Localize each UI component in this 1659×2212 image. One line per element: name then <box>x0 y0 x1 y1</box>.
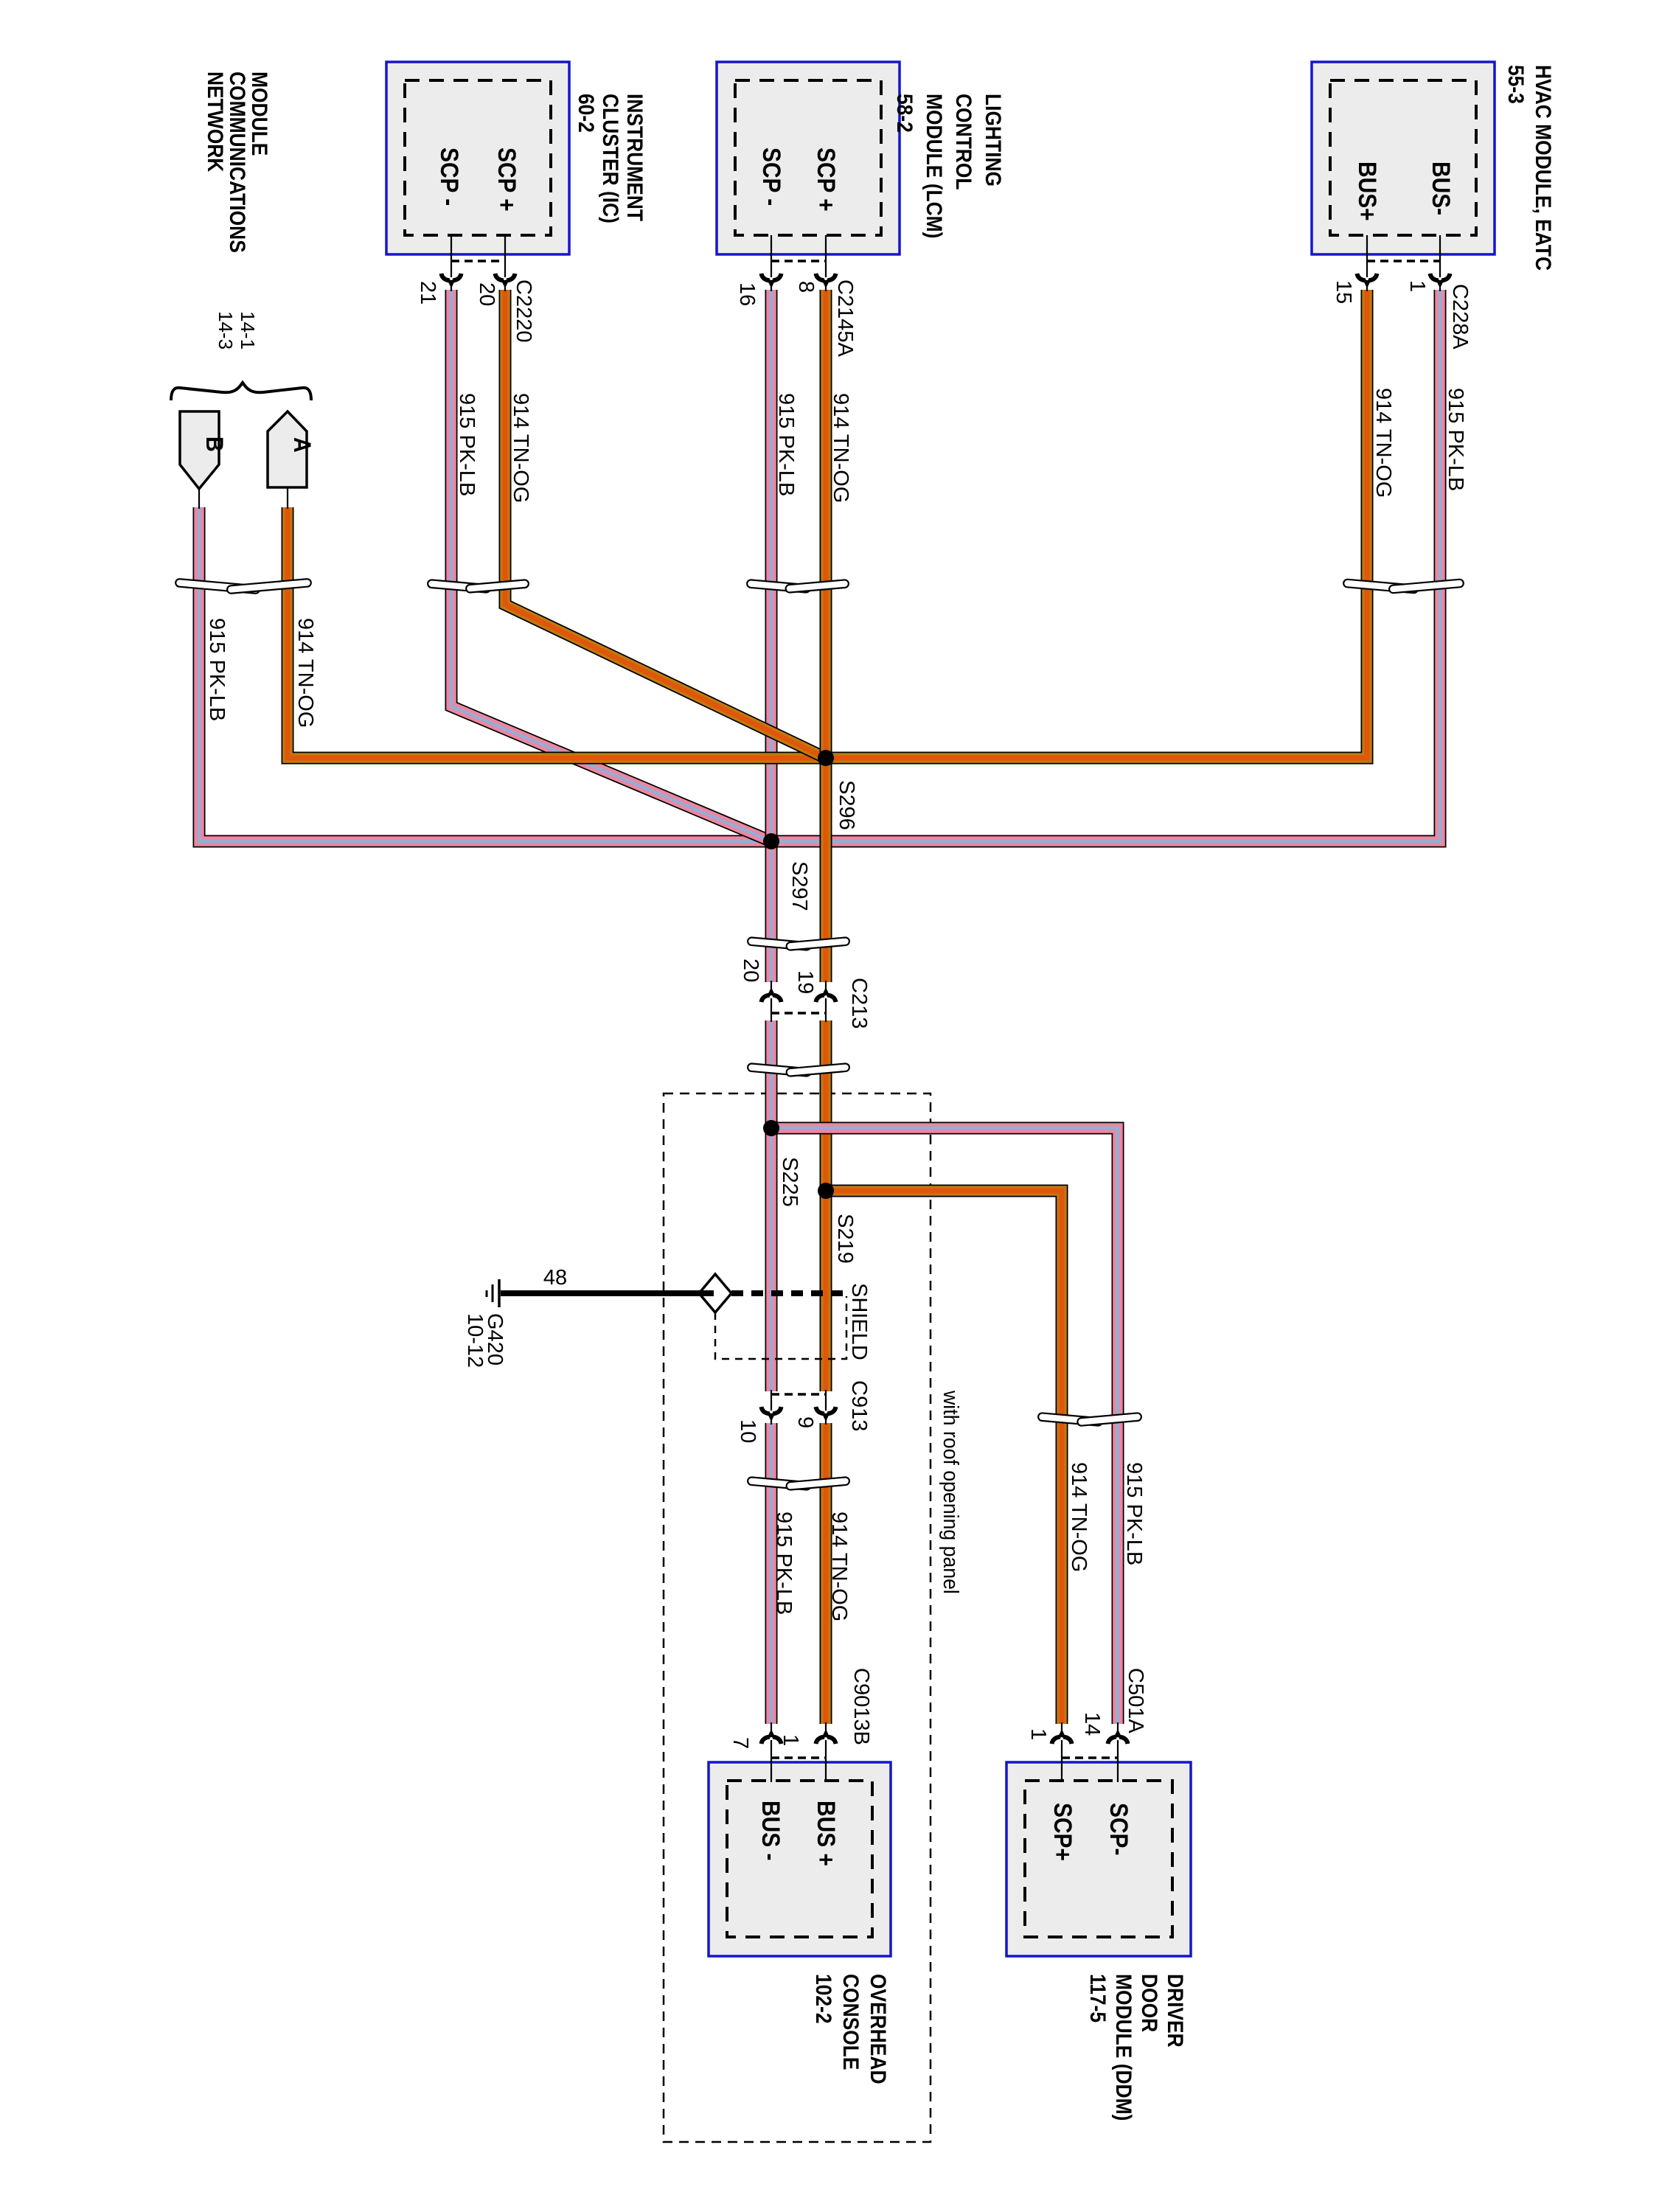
svg-text:BUS +: BUS + <box>813 1801 841 1866</box>
module box: DRIVER DOOR MODULE (DDM) <box>1006 1762 1191 1956</box>
wire 915 PK-LB: IC SCP- pin 21 diagonal to S297 <box>451 290 771 841</box>
wire 915 PK-LB: S225 branch to DDM SCP- <box>771 1128 1118 1724</box>
svg-text:G42010-12: G42010-12 <box>463 1313 507 1368</box>
wire 915 PK-LB: main bus C913 to overhead console <box>765 1423 778 1724</box>
twisted pair symbol HVAC wires <box>1343 579 1419 593</box>
svg-text:C228A: C228A <box>1448 284 1472 349</box>
shield dashed drain line <box>731 1290 846 1296</box>
wire 914 TN-OG: connector A to S296 to HVAC BUS+ <box>288 290 1367 758</box>
svg-text:15: 15 <box>1332 280 1355 304</box>
twisted pair symbol below C213 <box>748 1063 811 1077</box>
svg-text:9: 9 <box>793 1416 817 1428</box>
wire 914 TN-OG: IC SCP+ pin 20 diagonal to S296 <box>505 290 826 758</box>
svg-text:14-114-3: 14-114-3 <box>215 311 259 349</box>
svg-text:915 PK-LB: 915 PK-LB <box>774 393 798 496</box>
twisted pair symbol above C9013B <box>748 1477 811 1490</box>
twisted pair symbol above C213 <box>748 937 811 950</box>
svg-text:INSTRUMENTCLUSTER (IC)60-2: INSTRUMENTCLUSTER (IC)60-2 <box>574 94 648 223</box>
wire 914 TN-OG: S219 branch to DDM SCP+ <box>826 1191 1062 1724</box>
svg-text:A: A <box>289 437 316 453</box>
svg-text:20: 20 <box>475 282 498 306</box>
svg-text:48: 48 <box>543 1266 567 1290</box>
svg-text:C213: C213 <box>847 978 871 1029</box>
svg-text:HVAC MODULE, EATC55-3: HVAC MODULE, EATC55-3 <box>1504 65 1557 271</box>
svg-text:SCP+: SCP+ <box>1049 1803 1077 1861</box>
connector C501A pins 1,14 at DDM <box>1061 1722 1062 1782</box>
svg-text:BUS-: BUS- <box>1427 161 1455 215</box>
wire 915 PK-LB: main bus C213 to C913 <box>765 1020 778 1391</box>
splice S297 <box>763 833 779 849</box>
wire 915 PK-LB: connector B to S297 to HVAC BUS- <box>199 290 1440 841</box>
svg-text:915 PK-LB: 915 PK-LB <box>772 1512 796 1615</box>
connector A symbol <box>268 411 307 487</box>
twisted pair symbol DDM branch <box>1038 1413 1102 1426</box>
splice S219 <box>818 1183 834 1199</box>
inline connector C913 pins 10,9 <box>771 1390 772 1425</box>
svg-text:C2220: C2220 <box>512 279 535 342</box>
twisted pair symbol LCM wires <box>747 580 810 593</box>
svg-text:B: B <box>201 437 228 452</box>
module box: HVAC MODULE EATC <box>1312 62 1495 254</box>
svg-text:914 TN-OG: 914 TN-OG <box>509 393 532 503</box>
svg-text:914 TN-OG: 914 TN-OG <box>829 393 852 503</box>
svg-text:OVERHEADCONSOLE102-2: OVERHEADCONSOLE102-2 <box>812 1974 891 2084</box>
svg-text:915 PK-LB: 915 PK-LB <box>455 393 479 496</box>
connector C2220 pins 21,20 at IC <box>451 235 452 291</box>
svg-text:914 TN-OG: 914 TN-OG <box>1371 388 1395 498</box>
svg-text:BUS -: BUS - <box>757 1801 785 1860</box>
svg-text:S219: S219 <box>833 1214 857 1264</box>
svg-text:SCP +: SCP + <box>813 147 841 212</box>
svg-text:21: 21 <box>416 281 439 305</box>
splice S296 <box>818 750 834 766</box>
svg-text:915 PK-LB: 915 PK-LB <box>1444 388 1467 491</box>
svg-text:914 TN-OG: 914 TN-OG <box>827 1512 851 1621</box>
svg-text:1: 1 <box>1026 1728 1050 1740</box>
connector C9013B pins 7,1 at overhead console <box>771 1722 772 1782</box>
inline connector C213 pins 20,19 <box>771 981 772 1022</box>
svg-text:SCP -: SCP - <box>436 147 464 206</box>
svg-text:DRIVERDOORMODULE (DDM)117-5: DRIVERDOORMODULE (DDM)117-5 <box>1086 1974 1189 2121</box>
svg-text:8: 8 <box>794 281 818 293</box>
svg-text:16: 16 <box>735 282 759 306</box>
svg-text:C9013B: C9013B <box>849 1668 873 1745</box>
svg-text:MODULECOMMUNICATIONSNETWORK: MODULECOMMUNICATIONSNETWORK <box>204 72 273 253</box>
brace over connectors A and B <box>171 383 311 400</box>
svg-text:S296: S296 <box>835 780 858 830</box>
svg-text:7: 7 <box>728 1737 752 1749</box>
svg-text:S225: S225 <box>778 1157 801 1207</box>
wire 914 TN-OG: main bus C913 to overhead console <box>820 1423 832 1724</box>
svg-text:with roof opening panel: with roof opening panel <box>939 1390 963 1594</box>
svg-text:914 TN-OG: 914 TN-OG <box>1067 1462 1091 1572</box>
twisted pair symbol IC wires <box>428 580 491 593</box>
module box: INSTRUMENT CLUSTER (IC) <box>386 62 569 254</box>
svg-text:19: 19 <box>793 970 817 994</box>
ground G420 symbol <box>498 1279 501 1307</box>
svg-text:915 PK-LB: 915 PK-LB <box>1122 1462 1146 1565</box>
svg-text:SCP +: SCP + <box>493 147 521 212</box>
wire 914 TN-OG: main bus C213 to C913 <box>820 1020 832 1391</box>
svg-text:SCP -: SCP - <box>758 147 786 206</box>
wire 914 TN-OG: LCM pin 8 down main bus to C213 <box>820 290 832 982</box>
twisted pair symbol A/B wires <box>175 579 260 594</box>
wire 915 PK-LB: LCM pin 16 down main bus to C213 <box>765 290 778 982</box>
svg-text:10: 10 <box>736 1419 759 1443</box>
shield diamond <box>699 1274 731 1312</box>
wire 48 BK ground wire <box>501 1290 714 1296</box>
connector C228A pins 15,1 at HVAC <box>1366 235 1368 291</box>
svg-text:C913: C913 <box>847 1380 871 1431</box>
splice S225 <box>763 1120 779 1136</box>
dashed region: with roof opening panel <box>664 1093 931 2142</box>
connector C2145A pins 16,8 at LCM <box>771 235 772 291</box>
svg-text:LIGHTINGCONTROLMODULE (LCM)58-: LIGHTINGCONTROLMODULE (LCM)58-2 <box>893 94 1006 238</box>
module box: LIGHTING CONTROL MODULE (LCM) <box>717 62 900 254</box>
svg-text:14: 14 <box>1080 1712 1104 1736</box>
svg-text:C2145A: C2145A <box>833 279 857 357</box>
svg-text:SCP-: SCP- <box>1105 1803 1133 1855</box>
svg-text:915 PK-LB: 915 PK-LB <box>205 618 229 721</box>
svg-text:S297: S297 <box>787 861 811 911</box>
connector B symbol <box>180 411 219 489</box>
shield dashed outline <box>715 1296 846 1359</box>
svg-text:SHIELD: SHIELD <box>847 1283 871 1360</box>
svg-text:1: 1 <box>1405 280 1429 292</box>
svg-text:C501A: C501A <box>1124 1668 1147 1733</box>
svg-text:20: 20 <box>739 959 762 982</box>
module box: OVERHEAD CONSOLE <box>709 1762 891 1956</box>
svg-text:914 TN-OG: 914 TN-OG <box>293 618 317 728</box>
svg-text:1: 1 <box>779 1734 802 1746</box>
svg-text:BUS+: BUS+ <box>1354 161 1382 221</box>
